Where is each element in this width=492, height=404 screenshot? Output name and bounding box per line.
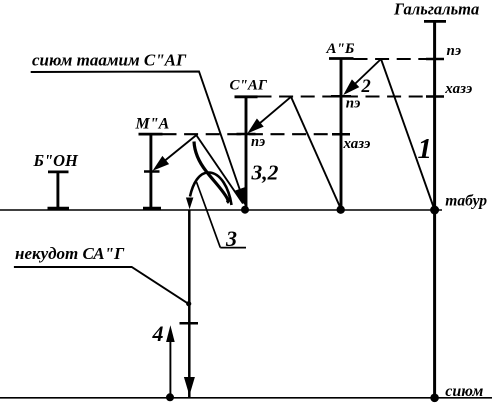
arrow 2 to AB peh <box>343 59 381 95</box>
sium line <box>0 397 492 399</box>
arrow 4 up from sium <box>166 325 175 401</box>
partzuf MA <box>139 134 163 209</box>
tabur line <box>0 209 442 211</box>
node dot tabur-Galgalta <box>430 206 439 215</box>
descent AB peh to AB tabur <box>291 97 341 209</box>
svg-text:3,2: 3,2 <box>251 161 279 185</box>
freehand swoosh curve <box>194 142 228 203</box>
svg-text:пэ: пэ <box>447 43 462 59</box>
svg-text:С"АГ: С"АГ <box>230 78 268 94</box>
svg-text:М"А: М"А <box>135 116 170 133</box>
dashed level chazeh of Galgalta <box>258 95 434 97</box>
partzuf Galgalta <box>424 21 446 397</box>
line 1 descent Galgalta peh to tabur <box>381 59 435 210</box>
descent SAG peh to SAG tabur <box>196 135 243 203</box>
svg-text:хазэ: хазэ <box>444 81 472 97</box>
svg-text:сиюм таамим С"АГ: сиюм таамим С"АГ <box>32 50 187 69</box>
svg-text:табур: табур <box>445 193 487 210</box>
svg-text:некудот СА"Г: некудот СА"Г <box>15 244 125 263</box>
callout nekudot SAG <box>14 244 188 303</box>
partzuf SAG <box>235 97 258 210</box>
dashed level peh of Galgalta <box>354 58 434 60</box>
callout sium taamim SAG <box>31 50 246 206</box>
svg-text:сиюм: сиюм <box>445 383 483 400</box>
partzuf AB <box>329 59 354 211</box>
svg-text:Гальгальта: Гальгальта <box>393 0 479 19</box>
svg-text:пэ: пэ <box>346 95 361 111</box>
node dot tabur-AB <box>337 206 345 214</box>
arrow to MA peh <box>153 135 197 171</box>
svg-text:1: 1 <box>418 133 433 165</box>
svg-text:2: 2 <box>361 77 371 97</box>
partzuf BON <box>48 172 70 209</box>
arrow to SAG peh <box>247 97 291 134</box>
svg-text:3: 3 <box>225 226 237 251</box>
callout 3 <box>197 182 247 251</box>
dashed level chazeh of AB <box>163 133 341 135</box>
node dot tabur-SAG <box>241 206 249 214</box>
svg-text:хазэ: хазэ <box>343 136 371 152</box>
node dot sium-Galgalta <box>430 394 439 403</box>
svg-text:Б"ОН: Б"ОН <box>33 151 80 170</box>
arch arrow to nekudot top <box>186 173 232 210</box>
svg-text:пэ: пэ <box>251 134 265 150</box>
nekudot SAG vertical line <box>180 210 199 397</box>
svg-text:А"Б: А"Б <box>326 41 355 57</box>
svg-text:4: 4 <box>152 321 164 346</box>
